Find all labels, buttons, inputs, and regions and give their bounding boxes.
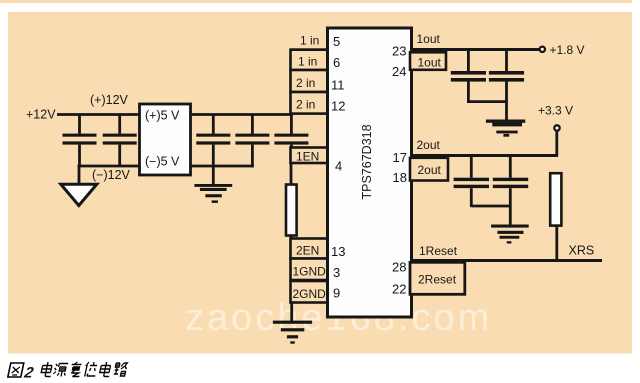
ground (triangle)	[61, 166, 97, 206]
svg-text:23: 23	[392, 44, 406, 59]
pin label box 1EN (pin4)	[291, 148, 328, 164]
svg-text:12: 12	[331, 99, 345, 114]
caption 图2 电源复位电路	[8, 363, 24, 377]
svg-text:6: 6	[333, 55, 340, 70]
svg-text:2out: 2out	[418, 163, 442, 177]
svg-text:1 in: 1 in	[300, 34, 319, 48]
capacitor C5	[274, 115, 308, 148]
svg-text:17: 17	[393, 150, 407, 165]
复	[69, 362, 82, 377]
capacitor C8	[454, 157, 489, 207]
ground (below C9)	[491, 225, 529, 244]
svg-text:2Reset: 2Reset	[418, 273, 457, 287]
capacitor C2	[103, 115, 137, 167]
图	[8, 363, 24, 377]
wire +12V rail left section	[57, 113, 139, 116]
位	[84, 362, 99, 377]
svg-text:2out: 2out	[417, 138, 441, 152]
svg-text:2 in: 2 in	[296, 98, 315, 112]
svg-text:XRS: XRS	[569, 244, 595, 258]
svg-text:TPS767D318: TPS767D318	[360, 124, 374, 199]
svg-text:18: 18	[393, 170, 407, 185]
svg-text:11: 11	[331, 78, 345, 93]
capacitor C7	[489, 51, 524, 120]
pin label box 2Reset (pin22)	[410, 262, 465, 294]
capacitor C1	[63, 115, 97, 168]
regulator module U2 (+)5V/(-)5V	[140, 104, 191, 175]
pin label box 1out (pin24)	[410, 52, 446, 70]
wire 2GND to ground	[290, 303, 293, 322]
pin label box 1GND (pin3)	[291, 259, 328, 281]
svg-text:2EN: 2EN	[296, 244, 319, 258]
ground (under C3)	[194, 166, 232, 203]
op-amp U1 TPS767D318 body	[328, 28, 412, 317]
svg-text:24: 24	[392, 64, 406, 79]
terminal +1.8V	[540, 43, 585, 57]
pin label box 2in (pin11)	[291, 70, 328, 92]
resistor R1	[286, 185, 297, 236]
wire 1EN to resistor	[290, 163, 293, 185]
wire -12V bottom rail left section	[78, 165, 140, 168]
ground (below 2GND)	[273, 321, 312, 344]
wire C6 to C7 bottom	[468, 100, 506, 103]
svg-text:1EN: 1EN	[296, 150, 319, 164]
svg-text:22: 22	[392, 282, 406, 297]
terminal +3.3V	[554, 125, 559, 130]
svg-text:(+)12V: (+)12V	[90, 93, 129, 107]
svg-text:2 in: 2 in	[296, 76, 315, 90]
路	[113, 363, 127, 376]
pin label box 2in (pin12)	[291, 92, 328, 114]
pin label box 2EN (pin13)	[291, 239, 328, 259]
svg-text:2GND: 2GND	[293, 287, 327, 301]
svg-text:5: 5	[333, 34, 340, 49]
svg-text:1out: 1out	[418, 56, 442, 70]
svg-text:1out: 1out	[417, 32, 441, 46]
capacitor C9	[493, 157, 528, 225]
svg-text:9: 9	[333, 286, 340, 301]
源	[53, 364, 68, 377]
pin label box 2GND (pin9)	[291, 281, 328, 303]
wire pin23 1out to +1.8V terminal	[412, 48, 540, 51]
svg-text:(+)5 V: (+)5 V	[145, 109, 180, 123]
wire +12V rail right of 5V module	[191, 113, 293, 116]
wire +3.3V terminal down to 2out rail	[555, 131, 558, 156]
ground (below C7, bar style)	[486, 120, 525, 137]
svg-text:+12V: +12V	[26, 108, 56, 122]
pin label box 2out (pin18)	[410, 158, 448, 181]
wire pin28 1Reset rail to XRS	[412, 259, 603, 262]
pin label box 1in (pin6)	[291, 50, 328, 70]
capacitor C4	[235, 115, 269, 168]
svg-text:1GND: 1GND	[293, 265, 327, 279]
wire R2 to reset rail	[555, 226, 558, 261]
wire resistor to 2EN	[290, 236, 293, 240]
svg-text:1 in: 1 in	[298, 55, 317, 69]
电	[99, 362, 112, 377]
电	[40, 362, 53, 377]
capacitor C6	[451, 51, 486, 103]
wire pin17 2out rail	[412, 154, 559, 157]
pin label shelf 1in (pin5)	[291, 34, 328, 50]
svg-text:4: 4	[335, 159, 342, 174]
svg-text:28: 28	[392, 260, 406, 275]
top beige strip	[0, 0, 632, 3]
svg-text:3: 3	[333, 265, 340, 280]
wire ground rail right of 5V module	[191, 165, 254, 168]
svg-text:13: 13	[331, 244, 345, 259]
svg-text:1Reset: 1Reset	[419, 244, 458, 258]
svg-text:(−)5 V: (−)5 V	[145, 155, 180, 169]
svg-text:+1.8 V: +1.8 V	[550, 43, 585, 57]
capacitor C3	[196, 115, 230, 167]
resistor R2	[550, 173, 561, 225]
svg-text:+3.3 V: +3.3 V	[538, 104, 573, 118]
svg-text:(−)12V: (−)12V	[92, 168, 131, 182]
wire C8 to C9 bottom	[471, 205, 510, 208]
